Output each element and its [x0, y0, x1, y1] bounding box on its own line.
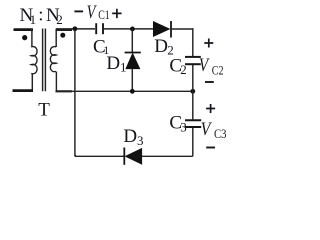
- N2 bottom bar: [56, 90, 73, 92]
- junction node at x75 top: [73, 26, 78, 31]
- wire D1 bottom: [131, 69, 133, 92]
- N1 polarity dot: [22, 35, 27, 40]
- N2 bottom connector wire: [55, 72, 57, 92]
- diode D2: [153, 21, 171, 38]
- label D2: [154, 36, 174, 58]
- label VC2 with + -: [199, 39, 224, 83]
- svg-text::: :: [38, 5, 43, 26]
- svg-text:C3: C3: [214, 126, 227, 141]
- bottom wire left of D3: [75, 155, 124, 157]
- N1 top connector wire: [31, 29, 33, 47]
- svg-text:2: 2: [56, 12, 63, 27]
- capacitor C2 bottom plate: [185, 63, 201, 65]
- diode D3: [124, 148, 142, 165]
- mid wire: [56, 90, 192, 92]
- svg-text:1: 1: [30, 12, 36, 27]
- N1 winding coil: [31, 47, 37, 74]
- svg-text:2: 2: [180, 62, 187, 77]
- capacitor C2 top plate: [185, 56, 201, 58]
- svg-text:V: V: [87, 1, 97, 22]
- label C3: [169, 113, 186, 135]
- wire mid to C3: [192, 91, 194, 119]
- svg-text:D: D: [154, 36, 168, 57]
- svg-text:C2: C2: [212, 62, 224, 77]
- N2 top connector wire: [55, 29, 57, 47]
- junction node D1 top: [130, 27, 135, 32]
- label D3: [123, 126, 143, 148]
- capacitor C3 top plate: [185, 119, 201, 121]
- svg-text:T: T: [38, 99, 50, 120]
- transformer core lines: [43, 29, 46, 92]
- svg-text:C1: C1: [98, 7, 110, 22]
- N1 bottom connector wire: [31, 74, 33, 92]
- capacitor C1 left plate: [95, 23, 97, 34]
- capacitor C1 right plate: [102, 23, 104, 34]
- N2 winding coil: [50, 47, 56, 72]
- svg-text:1: 1: [120, 60, 127, 75]
- wire D1 top: [131, 29, 133, 52]
- diode D1: [125, 53, 141, 69]
- N2 top bar: [56, 29, 72, 31]
- top wire: N2 to C1 left plate: [56, 28, 95, 30]
- svg-text:3: 3: [180, 119, 187, 134]
- label -VC1+: [74, 1, 121, 22]
- bottom wire right of D3: [142, 155, 193, 157]
- junction node mid right: [190, 89, 195, 94]
- N2 polarity dot: [60, 33, 65, 38]
- label C1: [93, 37, 109, 58]
- svg-text:D: D: [123, 126, 137, 147]
- junction node D1 bottom: [130, 89, 135, 94]
- top wire: C1 to D2: [104, 28, 154, 30]
- svg-text:3: 3: [137, 133, 144, 148]
- wire C3 bottom to bottom wire: [192, 128, 194, 157]
- label D1: [106, 53, 126, 75]
- N1 bottom bar: [13, 89, 34, 92]
- left tall wire x75: [75, 29, 76, 156]
- svg-text:D: D: [106, 53, 120, 74]
- label N1 : N2: [20, 5, 63, 27]
- transformer T : N1 top bar: [14, 28, 34, 31]
- capacitor C3 bottom plate: [185, 126, 201, 128]
- label VC3 with + -: [201, 104, 227, 148]
- top wire: D2 to right corner: [171, 28, 194, 30]
- label C2: [169, 55, 186, 77]
- right vertical: top corner to C2: [192, 28, 194, 56]
- wire C2 bottom to mid: [192, 65, 194, 91]
